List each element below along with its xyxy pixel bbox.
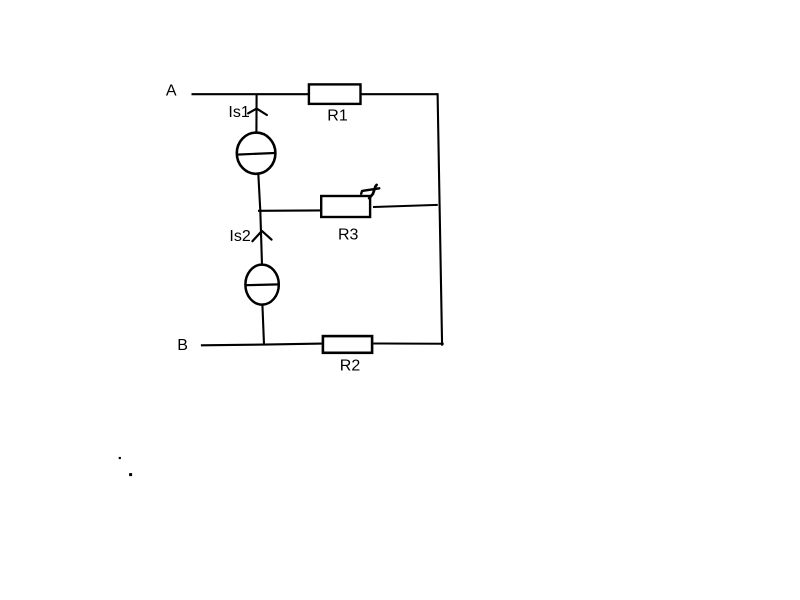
svg-text:B: B [177,337,188,354]
svg-text:Is2: Is2 [229,228,250,245]
svg-text:A: A [166,82,177,99]
svg-text:R1: R1 [327,107,348,124]
svg-text:R2: R2 [340,358,361,375]
svg-text:R3: R3 [338,226,359,243]
svg-text:Is1: Is1 [228,104,249,121]
